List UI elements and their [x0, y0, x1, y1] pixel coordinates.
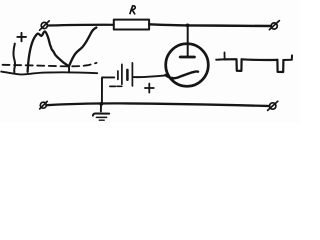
input waveform hump 2 (rising edge) [69, 28, 96, 66]
wire (bottom bus) [46, 103, 269, 106]
label plus (battery positive) [145, 84, 154, 93]
ground symbol [93, 114, 109, 121]
input waveform axis (dashed bias line) [3, 63, 97, 66]
wire (battery + to cathode) [134, 75, 166, 77]
input waveform (left partial edge squiggle) [13, 44, 14, 73]
input waveform notch (vertical drop to baseline) [68, 66, 70, 72]
input terminal J2 (bottom left) [40, 101, 48, 109]
wire (battery - lead and drop to ground bus) [102, 77, 114, 103]
input waveform hump 1 [28, 32, 69, 72]
node B (junction dot on bottom bus) [99, 102, 103, 106]
wire (top, R to junction and output terminal) [149, 24, 271, 26]
output waveform pulse 1 [225, 59, 242, 71]
output terminal J3 (top right) [269, 21, 279, 30]
output waveform lead-in dash [216, 58, 223, 60]
output waveform top segment [242, 58, 278, 61]
output waveform pulse 2 [277, 60, 283, 72]
output terminal J4 (bottom right) [268, 101, 278, 110]
resistor R [114, 20, 149, 30]
cathode of V1 (curved filament) [165, 71, 198, 78]
input terminal J1 (top left) [40, 21, 50, 30]
wire (anode lead, junction down into tube) [187, 26, 189, 57]
anode plate of V1 [180, 56, 194, 59]
vacuum-tube diode V1 (envelope) [166, 44, 209, 87]
output waveform start tick [224, 52, 226, 59]
wire (ground stub below bus) [100, 104, 102, 111]
label R [130, 6, 135, 14]
label minus (battery negative) [110, 85, 122, 87]
wire (top left, J1 to R) [48, 24, 114, 27]
label plus (input signal polarity) [17, 33, 26, 42]
battery B1 [118, 63, 132, 86]
node A (junction dot) [186, 24, 190, 28]
input waveform baseline [1, 72, 97, 75]
output waveform end segment with tick [283, 55, 292, 60]
